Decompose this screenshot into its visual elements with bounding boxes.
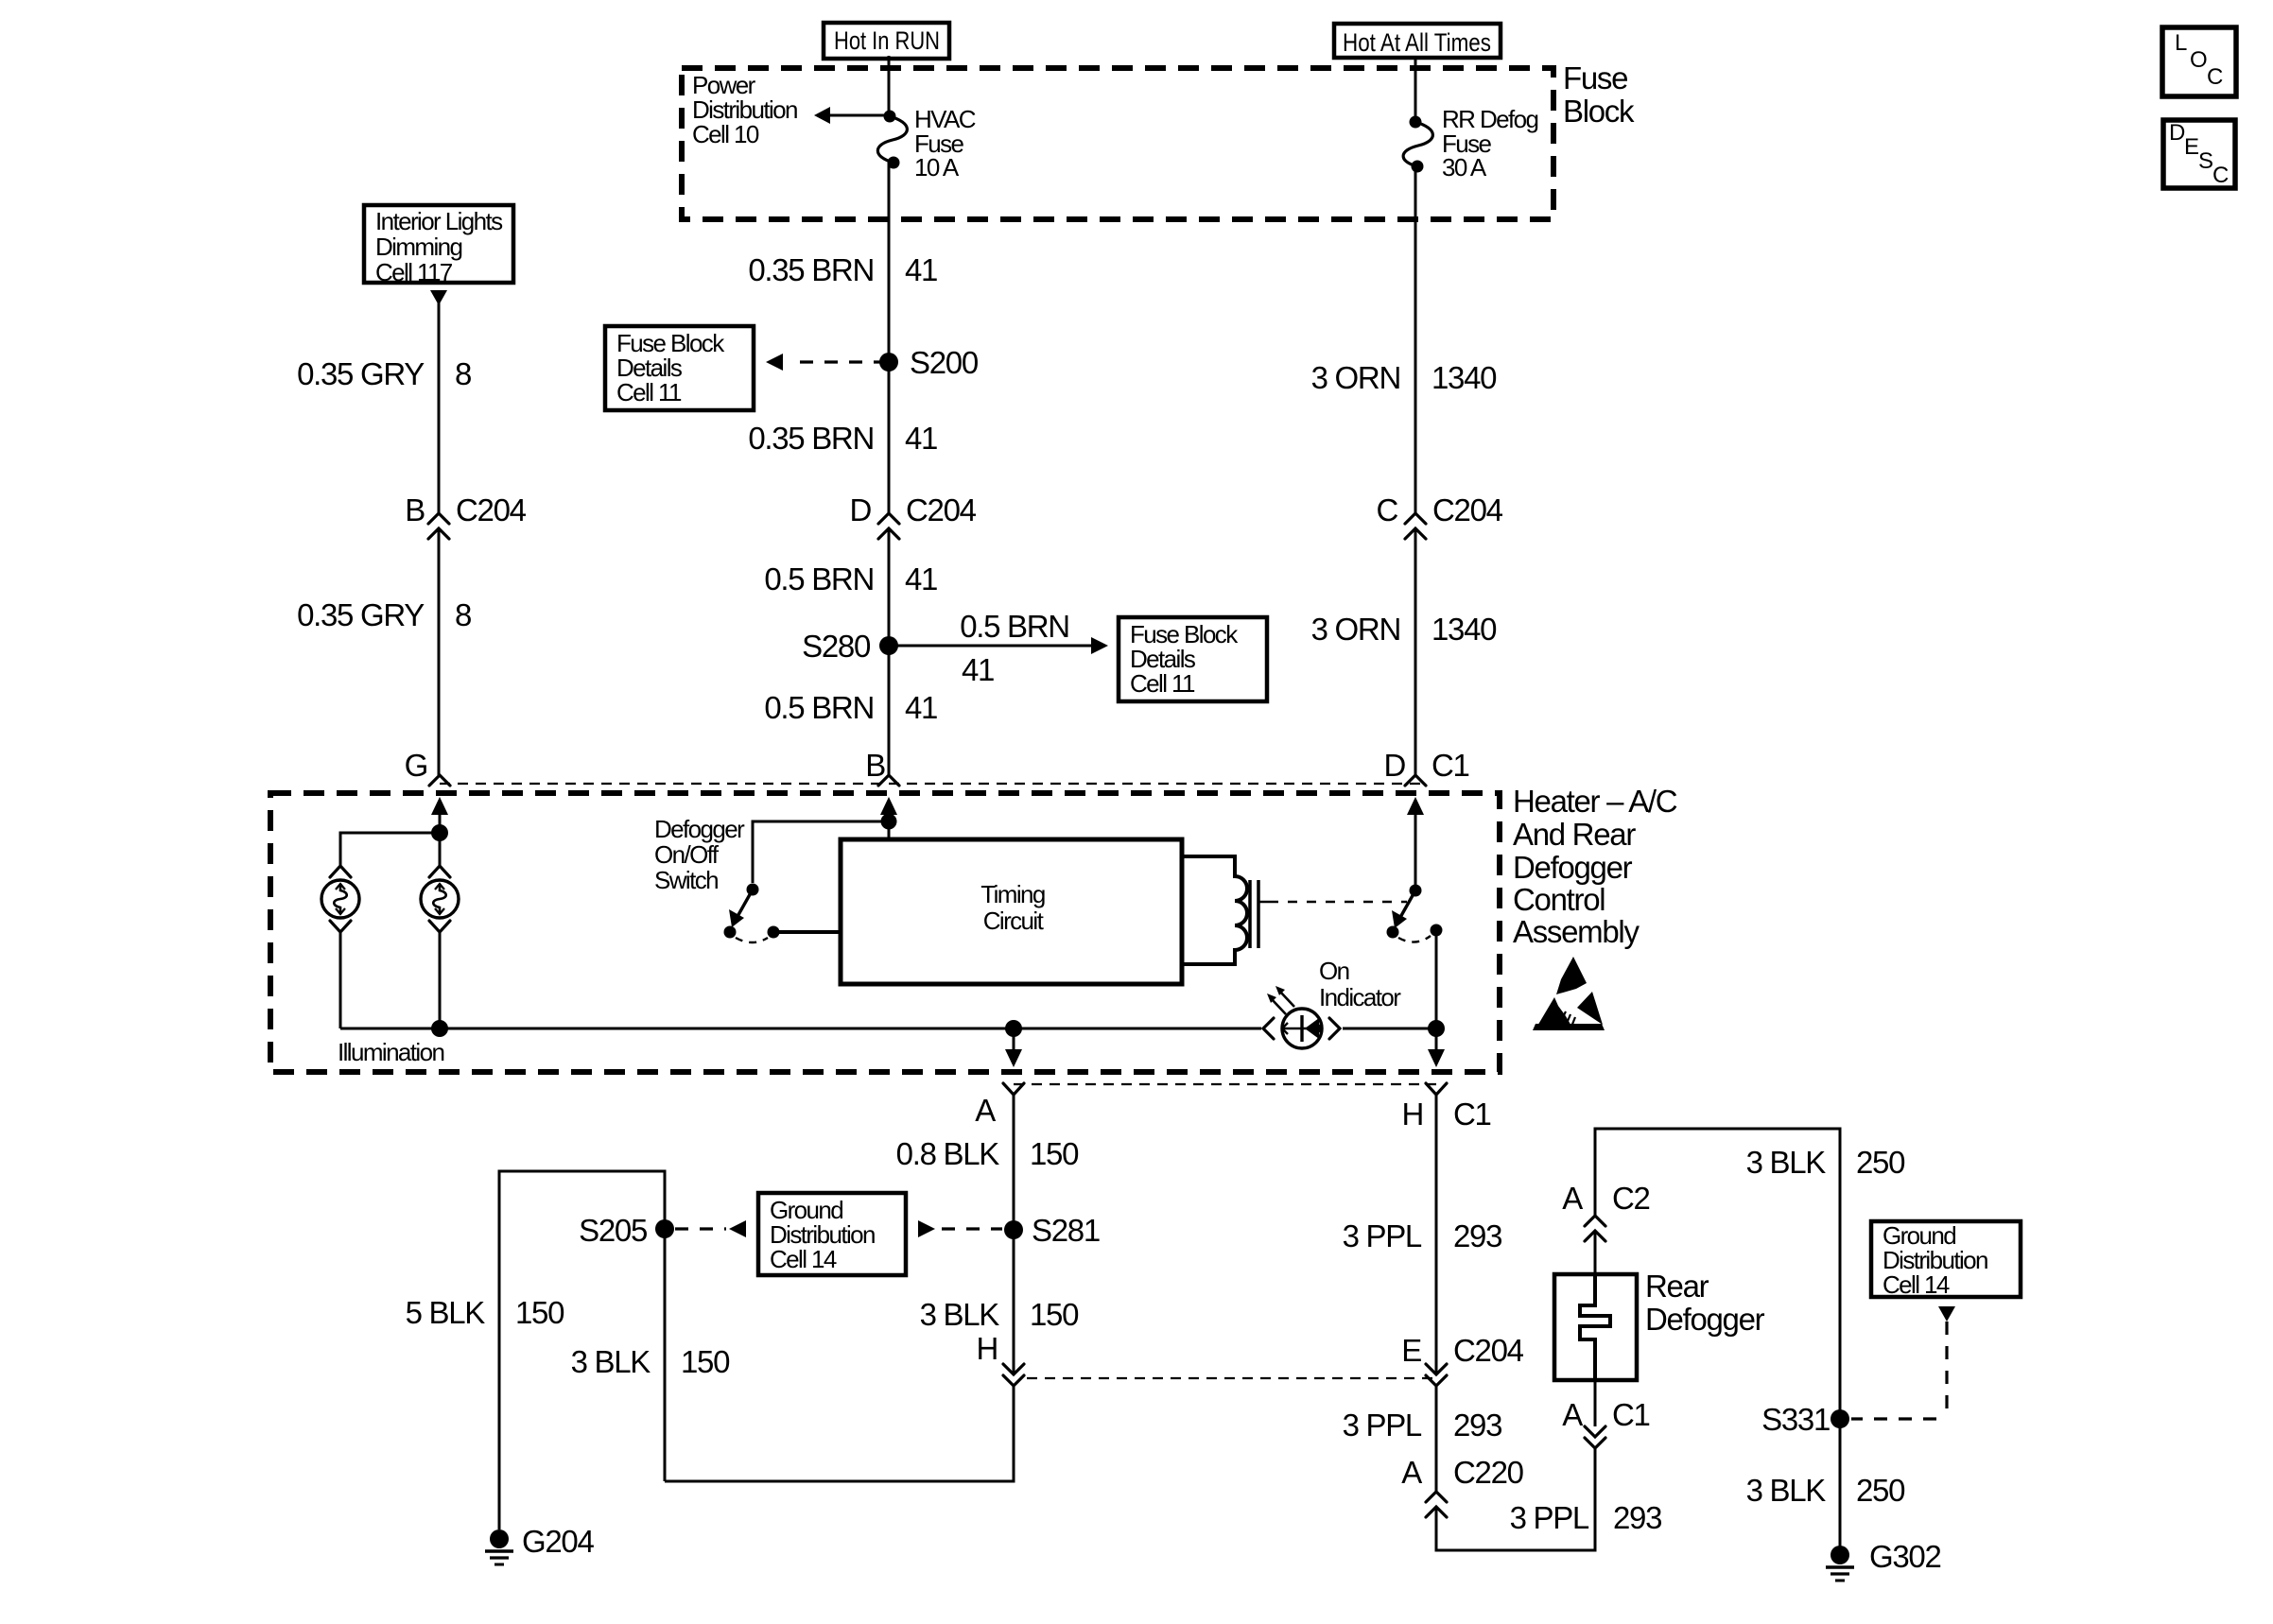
triangle to Interior Lights box [430, 290, 447, 305]
svg-text:C1: C1 [1612, 1397, 1650, 1432]
connector E C204 [1401, 1333, 1523, 1386]
relay core [1250, 880, 1269, 948]
svg-text:1340: 1340 [1431, 612, 1497, 647]
svg-text:3 BLK: 3 BLK [571, 1344, 651, 1379]
connector D C204 [849, 492, 976, 539]
svg-text:C: C [2207, 64, 2223, 90]
dashed arrow S205 to Ground Distribution [675, 1220, 746, 1237]
connector C C204 [1376, 492, 1502, 539]
splice S200 [879, 353, 898, 371]
svg-text:B: B [865, 748, 885, 783]
svg-text:41: 41 [905, 561, 937, 596]
svg-text:3 ORN: 3 ORN [1311, 360, 1400, 395]
svg-text:150: 150 [681, 1344, 730, 1379]
lamp 1 (illumination bulb left) [321, 866, 359, 932]
rear defogger element [1554, 1274, 1637, 1380]
connector H C204 (on BLK wire) [976, 1331, 1024, 1386]
svg-text:S200: S200 [910, 345, 979, 380]
svg-text:A: A [1401, 1455, 1422, 1490]
connector B C204 (left wire) [405, 492, 526, 539]
box Ground Distribution Cell 14 (right) [1871, 1221, 2021, 1299]
left ground loop wire [499, 1171, 665, 1529]
box Ground Distribution Cell 14 (left) [758, 1193, 906, 1275]
svg-text:FuseBlock: FuseBlock [1563, 60, 1635, 129]
svg-text:0.35 BRN: 0.35 BRN [748, 252, 874, 287]
wire 0.35 BRN 41 (HVAC fuse to B) [888, 163, 891, 513]
svg-text:E: E [2184, 134, 2199, 160]
junction dot LED bus to PPL [1428, 1020, 1445, 1037]
splice S280 [879, 636, 898, 655]
svg-text:293: 293 [1453, 1408, 1501, 1443]
svg-text:G: G [405, 748, 427, 783]
wire 3 PPL 293 (H C1 down) [1435, 1095, 1438, 1373]
svg-text:G302: G302 [1869, 1539, 1941, 1574]
svg-text:C1: C1 [1453, 1097, 1491, 1132]
timing circuit box [841, 839, 1182, 984]
svg-text:D: D [849, 492, 871, 527]
connector A C220 [1401, 1455, 1523, 1517]
svg-text:41: 41 [905, 252, 937, 287]
svg-text:A: A [1562, 1181, 1583, 1216]
svg-text:0.35 GRY: 0.35 GRY [297, 597, 425, 632]
wire 0.35 GRY 8 (to G) [438, 293, 441, 513]
triangle below Ground Distribution [1938, 1306, 1955, 1322]
svg-text:3 PPL: 3 PPL [1510, 1500, 1589, 1535]
svg-text:150: 150 [1030, 1136, 1079, 1171]
wire B to defogger switch [753, 821, 889, 883]
svg-text:293: 293 [1453, 1218, 1501, 1253]
svg-text:41: 41 [905, 690, 937, 725]
svg-text:0.35 GRY: 0.35 GRY [297, 356, 425, 391]
arrow down at H [1428, 1028, 1445, 1067]
junction dot B to switch feed [881, 814, 897, 830]
fuse HVAC 10 A [877, 111, 907, 169]
wire 0.8 BLK 150 (A to S281 to H C204) [1013, 1095, 1015, 1373]
svg-text:41: 41 [905, 421, 937, 456]
splice S205 [655, 1219, 674, 1238]
svg-text:H: H [1401, 1097, 1423, 1132]
svg-text:41: 41 [962, 652, 994, 687]
box Fuse Block Details Cell 11 (left) [605, 326, 754, 410]
svg-text:D: D [2169, 120, 2185, 146]
svg-text:Circuit: Circuit [983, 907, 1045, 935]
svg-text:B: B [405, 492, 425, 527]
connector G [405, 748, 450, 786]
svg-text:C204: C204 [1432, 492, 1503, 527]
svg-text:A: A [975, 1093, 996, 1128]
svg-text:O: O [2190, 47, 2208, 73]
relay coil [1182, 856, 1247, 964]
ground G204 [485, 1529, 513, 1564]
svg-text:S281: S281 [1032, 1213, 1100, 1248]
ESD sensitivity symbol [1533, 957, 1605, 1030]
svg-text:Hot At All Times: Hot At All Times [1343, 28, 1491, 57]
dashed arrow S200 to Fuse Block Details [766, 354, 881, 371]
LED on indicator [1263, 986, 1340, 1048]
svg-text:150: 150 [515, 1295, 564, 1330]
connector D C1 (assembly top) [1383, 748, 1468, 786]
svg-text:C204: C204 [456, 492, 527, 527]
arrow up at B [880, 797, 897, 839]
dashed link Ground Distribution to S331 [1851, 1322, 1947, 1419]
svg-text:8: 8 [455, 597, 471, 632]
arrow S280 to Fuse Block Details (right) [896, 609, 1108, 687]
connector line C1 bottom (thin dashed) [1014, 1083, 1436, 1085]
arrow to Power Distribution [814, 107, 889, 124]
box Fuse Block Details Cell 11 (right) [1119, 617, 1267, 701]
connector A (assembly bottom) [975, 1083, 1024, 1128]
svg-text:C1: C1 [1431, 748, 1469, 783]
svg-text:3 PPL: 3 PPL [1343, 1218, 1422, 1253]
splice S331 [1831, 1409, 1849, 1428]
relay switch contacts [1387, 885, 1443, 942]
svg-text:8: 8 [455, 356, 471, 391]
connector A C2 (defogger top) [1562, 1181, 1649, 1241]
svg-text:3 ORN: 3 ORN [1311, 612, 1400, 647]
svg-text:C: C [1376, 492, 1397, 527]
illumination bus wire [339, 932, 342, 1028]
lamp 2 (illumination bulb right) [421, 866, 459, 932]
fuse block dashed box [682, 68, 1553, 219]
svg-text:C204: C204 [906, 492, 977, 527]
svg-text:C: C [2212, 163, 2229, 188]
svg-text:3 BLK: 3 BLK [1746, 1473, 1827, 1508]
DESC reference box [2163, 120, 2235, 188]
svg-text:1340: 1340 [1431, 360, 1497, 395]
connector H C1 (assembly bottom) [1401, 1083, 1490, 1132]
arrow up at G [431, 797, 448, 833]
power label Hot In RUN [824, 23, 949, 59]
connector line C204 (thin dashed) [1027, 1377, 1436, 1379]
svg-text:Illumination: Illumination [338, 1038, 443, 1066]
power label Hot At All Times [1334, 24, 1501, 58]
fuse RR Defog 30 A [1403, 116, 1432, 173]
relay dashed link to contacts [1269, 901, 1407, 904]
wire lamp branch [340, 833, 440, 866]
svg-text:S: S [2198, 148, 2213, 174]
svg-text:0.35 BRN: 0.35 BRN [748, 421, 874, 456]
junction dot lamp2 to bus [431, 1020, 448, 1037]
junction dot A branch [1005, 1020, 1022, 1037]
wire from Hot In RUN to HVAC fuse [888, 56, 891, 116]
connector B (assembly top) [865, 748, 899, 786]
connector line C1 top (thin dashed) [440, 783, 1426, 785]
svg-text:3 BLK: 3 BLK [1746, 1145, 1827, 1180]
defogger on/off switch [724, 884, 780, 943]
ground G302 [1826, 1546, 1854, 1581]
svg-text:250: 250 [1856, 1145, 1905, 1180]
svg-text:C204: C204 [1453, 1333, 1524, 1368]
svg-text:0.5 BRN: 0.5 BRN [764, 561, 874, 596]
svg-text:C220: C220 [1453, 1455, 1524, 1490]
wire defogger box bottom to A C1 [1594, 1380, 1597, 1426]
arrow down at A [1005, 1028, 1022, 1067]
svg-text:On: On [1319, 957, 1349, 985]
svg-text:L: L [2175, 30, 2187, 56]
svg-text:G204: G204 [522, 1524, 594, 1559]
junction dot lamp branch [431, 824, 448, 841]
wire from Hot At All Times to RR Defog fuse [1414, 58, 1417, 122]
svg-text:0.5 BRN: 0.5 BRN [764, 690, 874, 725]
svg-text:293: 293 [1613, 1500, 1661, 1535]
svg-text:S280: S280 [802, 629, 871, 664]
LOC reference box [2162, 27, 2236, 96]
svg-text:0.8 BLK: 0.8 BLK [896, 1136, 1000, 1171]
svg-text:5 BLK: 5 BLK [406, 1295, 486, 1330]
svg-text:Indicator: Indicator [1319, 983, 1401, 1011]
wire defogger top to BLK 250 [1594, 1231, 1597, 1274]
svg-text:S331: S331 [1761, 1402, 1830, 1437]
svg-text:S205: S205 [579, 1213, 647, 1248]
svg-text:250: 250 [1856, 1473, 1905, 1508]
svg-text:Timing: Timing [980, 880, 1045, 908]
wire PPL relay contact down [1435, 930, 1438, 1049]
wire switch to timing circuit [773, 930, 841, 934]
wire 3 ORN 1340 (fuse to D C1) [1414, 166, 1417, 513]
svg-text:150: 150 [1030, 1297, 1079, 1332]
svg-text:Hot In RUN: Hot In RUN [834, 26, 940, 55]
arrow up at D [1407, 797, 1424, 886]
svg-text:D: D [1383, 748, 1405, 783]
box Interior Lights Dimming Cell 117 [364, 205, 513, 286]
heater A/C assembly dashed box [270, 793, 1500, 1072]
splice S281 [1004, 1220, 1023, 1239]
svg-text:A: A [1562, 1397, 1583, 1432]
svg-text:3 BLK: 3 BLK [920, 1297, 1000, 1332]
svg-text:0.5 BRN: 0.5 BRN [960, 609, 1069, 644]
wire 3 PPL 293 to rear defogger [1436, 1448, 1595, 1550]
svg-text:E: E [1401, 1333, 1421, 1368]
svg-text:3 PPL: 3 PPL [1343, 1408, 1422, 1443]
wire 3 BLK 150 to ground loop [665, 1386, 1014, 1481]
svg-text:H: H [976, 1331, 998, 1366]
connector A C1 (defogger bottom) [1562, 1397, 1649, 1448]
dashed arrow S281 to Ground Distribution [918, 1220, 1002, 1237]
wire 3 PPL 293 (E to A C220) [1435, 1386, 1438, 1492]
svg-text:C2: C2 [1612, 1181, 1650, 1216]
